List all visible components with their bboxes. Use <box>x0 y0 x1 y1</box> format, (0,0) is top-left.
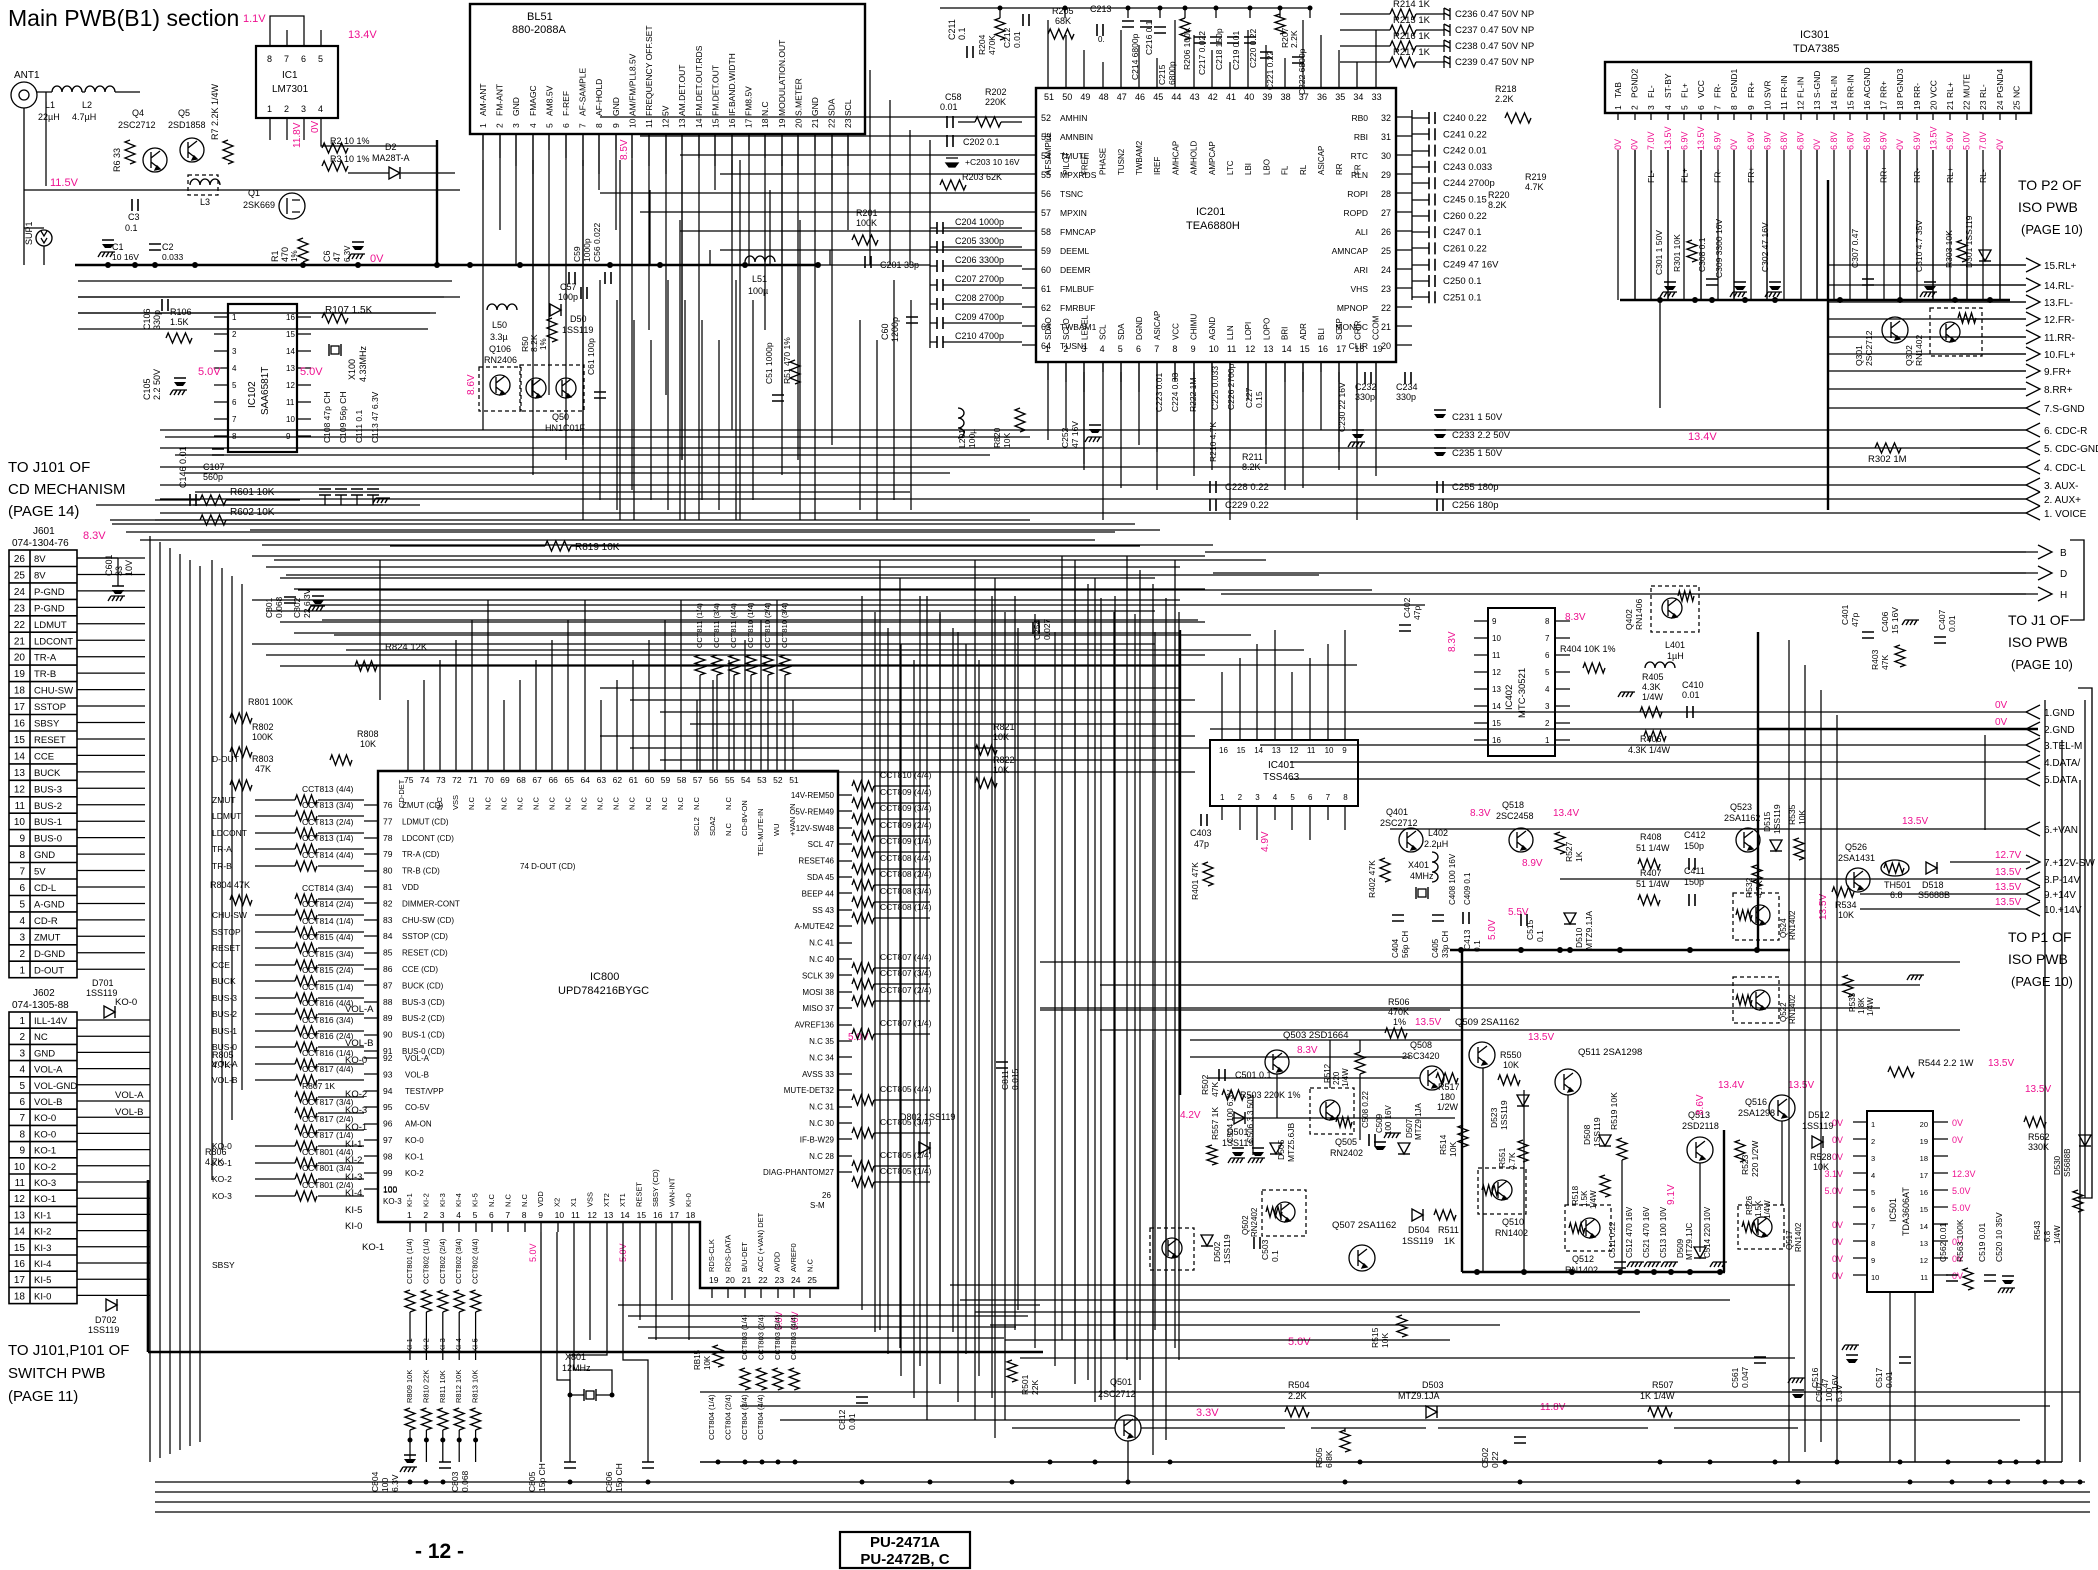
svg-text:93: 93 <box>383 1069 393 1079</box>
svg-text:DEEMR: DEEMR <box>1060 265 1091 275</box>
svg-text:CCT804 (4/4): CCT804 (4/4) <box>756 1394 765 1440</box>
svg-text:ROPD: ROPD <box>1343 208 1368 218</box>
svg-text:BLI: BLI <box>1317 328 1326 340</box>
svg-text:C235 1 50V: C235 1 50V <box>1452 448 1503 459</box>
wires X801 <box>570 1394 584 1396</box>
wire J602 row <box>77 1116 150 1118</box>
svg-text:8.2K: 8.2K <box>529 334 539 352</box>
wire to arrow 15.RL+ <box>1960 264 2026 266</box>
svg-text:11: 11 <box>286 398 295 407</box>
svg-text:3.3V: 3.3V <box>1196 1407 1219 1419</box>
svg-text:19: 19 <box>1373 344 1383 354</box>
svg-text:Q507 2SA1162: Q507 2SA1162 <box>1332 1220 1396 1231</box>
wire RL rows from IC301 to P2 arrows <box>1828 264 2026 266</box>
svg-text:11: 11 <box>15 1178 26 1189</box>
svg-text:14: 14 <box>1492 702 1501 711</box>
svg-text:21: 21 <box>14 636 26 647</box>
svg-text:5: 5 <box>1679 105 1689 110</box>
svg-text:D504: D504 <box>1408 1225 1430 1235</box>
svg-text:2SK669: 2SK669 <box>243 200 275 210</box>
connector arrow 9.+14V <box>2026 887 2040 901</box>
wire cap bank row <box>1412 231 1429 233</box>
svg-text:5: 5 <box>232 381 237 390</box>
svg-text:AVSS 33: AVSS 33 <box>802 1070 834 1079</box>
svg-text:13: 13 <box>677 118 687 128</box>
svg-text:330p: 330p <box>1355 392 1375 402</box>
resistor CCT817 for net x <box>295 1125 317 1135</box>
svg-text:CCT810 (2/4): CCT810 (2/4) <box>763 602 772 648</box>
svg-text:BEEP 44: BEEP 44 <box>802 889 835 898</box>
svg-text:KO-3: KO-3 <box>212 1191 232 1201</box>
svg-text:56: 56 <box>1041 189 1051 199</box>
svg-text:16: 16 <box>1862 100 1872 110</box>
svg-text:KO-1: KO-1 <box>362 1242 384 1253</box>
svg-text:C512 470 16V: C512 470 16V <box>1625 1206 1634 1258</box>
svg-text:N.C 35: N.C 35 <box>809 1037 834 1046</box>
resistor CCT815 for net RESET <box>295 943 317 953</box>
svg-text:48: 48 <box>1099 92 1109 102</box>
svg-text:R812 10K: R812 10K <box>454 1370 463 1403</box>
wire IC1 feedback loop <box>270 16 304 30</box>
svg-text:(PAGE 10): (PAGE 10) <box>2011 657 2073 672</box>
svg-text:SCL 47: SCL 47 <box>808 840 835 849</box>
svg-text:13.4V: 13.4V <box>348 29 377 41</box>
svg-text:15: 15 <box>14 735 26 746</box>
resistor R544 2.2 1W <box>1888 1067 1914 1077</box>
svg-text:R532: R532 <box>1744 877 1754 898</box>
connector arrow 13.FL- <box>2026 295 2040 309</box>
wire to arrow 5. CDC-GND <box>1960 447 2026 449</box>
svg-text:X401: X401 <box>1408 860 1429 870</box>
svg-text:21: 21 <box>1945 100 1955 110</box>
svg-text:R563 100K: R563 100K <box>1955 1219 1965 1262</box>
svg-text:22: 22 <box>1962 100 1972 110</box>
svg-text:0.1: 0.1 <box>1535 930 1545 942</box>
svg-text:41: 41 <box>1226 92 1236 102</box>
svg-text:12: 12 <box>286 381 295 390</box>
svg-text:17: 17 <box>14 702 26 713</box>
svg-text:C401: C401 <box>1840 604 1850 625</box>
svg-text:10K: 10K <box>1448 1142 1458 1157</box>
svg-text:RDS-CLK: RDS-CLK <box>707 1239 716 1272</box>
connector arrow 14.RL- <box>2026 278 2040 292</box>
svg-text:18: 18 <box>14 1291 26 1302</box>
svg-text:TSNC: TSNC <box>1060 189 1083 199</box>
svg-text:GND: GND <box>34 850 55 861</box>
svg-text:C521 470 16V: C521 470 16V <box>1642 1206 1651 1258</box>
svg-text:33p CH: 33p CH <box>1441 931 1450 958</box>
svg-text:D702: D702 <box>95 1315 117 1325</box>
svg-text:20: 20 <box>14 653 26 664</box>
svg-text:0.01: 0.01 <box>847 1413 857 1430</box>
svg-text:X1: X1 <box>569 1198 578 1207</box>
resistor CCT810 (4/4) <box>852 781 874 791</box>
svg-text:11: 11 <box>1307 746 1316 755</box>
wire IC501 bottom drops <box>1889 1292 1891 1462</box>
svg-text:13.5V: 13.5V <box>1995 867 2021 878</box>
svg-text:180: 180 <box>1440 1092 1455 1102</box>
wire IC102 bottom rail <box>193 504 383 506</box>
svg-text:21: 21 <box>1381 322 1391 332</box>
svg-text:R504: R504 <box>1288 1380 1310 1390</box>
svg-text:KI-3: KI-3 <box>34 1243 51 1254</box>
svg-text:C410: C410 <box>1682 680 1704 690</box>
svg-text:C403: C403 <box>1190 828 1212 838</box>
svg-text:AM-ON: AM-ON <box>405 1120 432 1129</box>
svg-text:13: 13 <box>286 364 295 373</box>
svg-text:2. AUX+: 2. AUX+ <box>2044 495 2081 506</box>
svg-text:LDCONT (CD): LDCONT (CD) <box>402 834 454 843</box>
svg-text:12: 12 <box>1920 1256 1928 1265</box>
svg-text:6.8V: 6.8V <box>1862 131 1872 150</box>
svg-text:R7 2.2K 1/4W: R7 2.2K 1/4W <box>210 83 220 140</box>
wire vertical bundle from BL51 <box>482 160 484 430</box>
svg-text:C228 0.22: C228 0.22 <box>1225 482 1269 493</box>
svg-text:58: 58 <box>677 775 687 785</box>
svg-text:R408: R408 <box>1640 832 1662 842</box>
svg-text:DIAG-PHANTOM27: DIAG-PHANTOM27 <box>763 1168 835 1177</box>
svg-text:1SS119: 1SS119 <box>1592 1117 1602 1147</box>
svg-text:60: 60 <box>645 775 655 785</box>
svg-text:24: 24 <box>1381 265 1391 275</box>
svg-text:36: 36 <box>1317 92 1327 102</box>
wire J602 row <box>77 1181 150 1183</box>
wires power cluster mesh 2 <box>1208 1077 1420 1079</box>
svg-text:MTZ9.1JA: MTZ9.1JA <box>1414 1102 1423 1140</box>
svg-text:10.FL+: 10.FL+ <box>2044 350 2076 361</box>
svg-text:CCT801 (2/4): CCT801 (2/4) <box>302 1180 354 1190</box>
svg-text:CCE: CCE <box>34 751 54 762</box>
svg-text:C516: C516 <box>1810 1367 1820 1388</box>
svg-text:5: 5 <box>544 123 554 128</box>
svg-text:0.15: 0.15 <box>1254 391 1264 408</box>
svg-text:X801: X801 <box>565 1352 586 1362</box>
svg-text:7: 7 <box>232 415 237 424</box>
heavy bus 13.5V mid right <box>1450 949 1790 952</box>
svg-text:33: 33 <box>1372 92 1382 102</box>
svg-text:6.+VAN: 6.+VAN <box>2044 825 2078 836</box>
svg-text:0.047: 0.047 <box>1740 1366 1750 1388</box>
svg-text:N.C: N.C <box>644 797 653 811</box>
svg-text:4.33MHz: 4.33MHz <box>358 345 368 382</box>
wire J602 row <box>77 1051 150 1053</box>
IC IC301 TDA7385 box <box>1605 62 2031 113</box>
svg-text:KI-0: KI-0 <box>345 1221 362 1232</box>
svg-text:KI-3: KI-3 <box>438 1193 447 1207</box>
svg-text:X2: X2 <box>553 1198 562 1207</box>
svg-text:MPXRDS: MPXRDS <box>1060 170 1097 180</box>
resistor CCT808 (1/4) <box>852 913 874 923</box>
svg-text:7.0V: 7.0V <box>1646 131 1656 150</box>
svg-text:R543: R543 <box>2033 1220 2042 1240</box>
wire J601 row <box>77 787 145 789</box>
svg-text:22: 22 <box>1381 303 1391 313</box>
wire R602 <box>155 519 200 521</box>
wire misc mid-right horizontals <box>1210 711 2026 713</box>
svg-text:Q402: Q402 <box>1624 609 1634 630</box>
capacitor C261 0.22 <box>1429 242 1435 254</box>
svg-text:10: 10 <box>1492 634 1501 643</box>
svg-text:C308 0.1: C308 0.1 <box>1697 237 1707 272</box>
wire J602 row <box>77 1068 150 1070</box>
wire VDD pin9 down <box>540 1232 542 1462</box>
svg-text:AMNBIN: AMNBIN <box>1060 132 1093 142</box>
svg-text:26: 26 <box>822 1191 831 1200</box>
svg-text:C59: C59 <box>572 246 582 262</box>
svg-text:5: 5 <box>19 1081 25 1092</box>
svg-text:MPNOP: MPNOP <box>1337 303 1369 313</box>
transistor Q508 circle <box>1420 1066 1444 1090</box>
svg-text:MTZ9.1JA: MTZ9.1JA <box>1584 910 1594 950</box>
svg-text:8.9V: 8.9V <box>1522 858 1543 869</box>
svg-text:51 1/4W: 51 1/4W <box>1636 843 1670 853</box>
svg-text:N.C: N.C <box>503 1194 512 1208</box>
svg-text:16: 16 <box>14 1259 26 1270</box>
svg-text:13.5V: 13.5V <box>1528 1032 1554 1043</box>
svg-text:N.C: N.C <box>596 797 605 811</box>
svg-text:L3: L3 <box>200 197 210 207</box>
svg-text:3: 3 <box>1871 1154 1875 1163</box>
svg-text:20: 20 <box>1928 100 1938 110</box>
svg-text:0.01: 0.01 <box>1012 31 1022 48</box>
resistor CCT813 for net LDMUT <box>295 811 317 821</box>
svg-text:5.0V: 5.0V <box>198 366 221 378</box>
connector arrow D <box>2038 566 2052 580</box>
svg-text:PGND3: PGND3 <box>1895 68 1905 98</box>
svg-text:Q512: Q512 <box>1572 1254 1594 1264</box>
svg-text:8: 8 <box>1871 1239 1875 1248</box>
svg-text:C250 0.1: C250 0.1 <box>1443 276 1482 287</box>
wire bottom long buses <box>155 1481 2085 1483</box>
svg-text:LLN: LLN <box>1226 325 1235 340</box>
digital transistor Q512 RN1402 <box>1565 1205 1611 1251</box>
svg-text:C234: C234 <box>1396 382 1418 392</box>
svg-text:C519 0.01: C519 0.01 <box>1977 1223 1987 1262</box>
svg-text:1/4W: 1/4W <box>1763 1200 1772 1219</box>
svg-text:1: 1 <box>1613 105 1623 110</box>
svg-text:31: 31 <box>1381 132 1391 142</box>
svg-text:R211: R211 <box>1242 452 1263 462</box>
wire rows bottom middle <box>700 1391 2080 1393</box>
wire J601 row <box>77 771 145 773</box>
wire band horizontals y430..520 left <box>165 436 1030 438</box>
svg-text:4.3K 1/4W: 4.3K 1/4W <box>1628 745 1671 755</box>
digital transistor Q522 RN1402 <box>1733 977 1779 1023</box>
svg-text:A-GND: A-GND <box>34 899 65 910</box>
svg-text:3: 3 <box>19 932 25 943</box>
svg-text:19: 19 <box>14 669 26 680</box>
svg-text:2SC2712: 2SC2712 <box>1864 330 1874 366</box>
svg-text:(PAGE 10): (PAGE 10) <box>2021 222 2083 237</box>
svg-text:VCC: VCC <box>1696 80 1706 98</box>
svg-text:R811 10K: R811 10K <box>438 1370 447 1403</box>
svg-text:5.0V: 5.0V <box>1952 1203 1971 1213</box>
svg-text:83: 83 <box>383 915 393 925</box>
svg-text:AVDD: AVDD <box>773 1251 782 1272</box>
svg-text:FM.DET.OUT: FM.DET.OUT <box>710 65 720 116</box>
wire J601 row <box>77 919 145 921</box>
svg-text:Q502: Q502 <box>1241 1215 1250 1235</box>
svg-text:10: 10 <box>1325 746 1334 755</box>
svg-text:4: 4 <box>528 123 538 128</box>
wire VSS down <box>589 1232 591 1340</box>
svg-text:59: 59 <box>1041 246 1051 256</box>
svg-text:5V: 5V <box>661 105 671 116</box>
wire J601 row <box>77 574 145 576</box>
svg-text:Q518: Q518 <box>1502 800 1524 810</box>
svg-text:7: 7 <box>19 1113 25 1124</box>
svg-text:N.C: N.C <box>724 823 733 837</box>
svg-text:5.0V: 5.0V <box>1824 1186 1843 1196</box>
svg-text:21: 21 <box>810 118 820 128</box>
svg-text:15: 15 <box>1492 719 1501 728</box>
IC IC401 TSS463 box <box>1210 740 1358 806</box>
svg-text:TMUTE: TMUTE <box>1060 151 1090 161</box>
svg-text:SCLK 39: SCLK 39 <box>802 971 835 980</box>
wire heavy vertical right power <box>1723 1130 1725 1272</box>
svg-text:1/4W: 1/4W <box>1589 1190 1598 1209</box>
wire J601 row <box>77 903 145 905</box>
svg-text:18: 18 <box>1895 100 1905 110</box>
wire rows under IC800 <box>618 1304 1040 1306</box>
capacitor C204 <box>937 222 943 234</box>
svg-text:LBO: LBO <box>1262 159 1271 175</box>
svg-text:R534: R534 <box>1835 900 1857 910</box>
wire to arrow 1. VOICE <box>1960 512 2026 514</box>
svg-text:CCT814 (4/4): CCT814 (4/4) <box>302 850 354 860</box>
ground bus 0V heavy <box>75 264 818 267</box>
svg-text:FREQUENCY OFF.SET: FREQUENCY OFF.SET <box>644 25 654 116</box>
svg-text:N.C 40: N.C 40 <box>809 955 834 964</box>
svg-text:15 16V: 15 16V <box>1890 607 1900 634</box>
svg-text:61: 61 <box>1041 284 1051 294</box>
svg-text:12.FR-: 12.FR- <box>2044 315 2075 326</box>
svg-text:1.1V: 1.1V <box>243 13 266 25</box>
svg-text:10: 10 <box>14 1162 26 1173</box>
svg-text:RR-: RR- <box>1912 83 1922 98</box>
svg-text:1µH: 1µH <box>1667 651 1684 661</box>
svg-text:FM8.5V: FM8.5V <box>744 86 754 116</box>
svg-text:18: 18 <box>686 1210 696 1220</box>
svg-text:18: 18 <box>760 118 770 128</box>
svg-text:KI-2: KI-2 <box>421 1193 430 1207</box>
svg-text:TAB: TAB <box>1613 82 1623 98</box>
wire BL51 pin verticals long <box>482 134 484 190</box>
svg-text:C231 1 50V: C231 1 50V <box>1452 412 1503 423</box>
svg-text:D802 1SS119: D802 1SS119 <box>900 1112 955 1122</box>
resistor CCT809 (3/4) <box>852 814 874 824</box>
svg-text:WU: WU <box>772 824 781 837</box>
svg-text:N.C: N.C <box>760 101 770 116</box>
svg-text:6.8V: 6.8V <box>1829 131 1839 150</box>
svg-text:13.5V: 13.5V <box>1928 126 1938 150</box>
svg-text:47K: 47K <box>1880 655 1890 670</box>
wire J601 row <box>77 952 145 954</box>
svg-text:AVREF136: AVREF136 <box>795 1021 835 1030</box>
svg-text:C251 0.1: C251 0.1 <box>1443 292 1482 303</box>
svg-text:CCT802 (4/4): CCT802 (4/4) <box>471 1238 480 1284</box>
svg-text:RN1402: RN1402 <box>1495 1228 1528 1238</box>
heavy bus bottom power <box>1462 1271 1725 1274</box>
svg-text:13: 13 <box>1812 100 1822 110</box>
svg-text:21: 21 <box>742 1275 752 1285</box>
svg-text:R201: R201 <box>856 208 878 218</box>
svg-text:74: 74 <box>420 775 430 785</box>
svg-text:D701: D701 <box>92 978 114 988</box>
svg-text:FL: FL <box>1281 165 1290 175</box>
wire bundle vertical right of IC301 <box>1827 180 1829 510</box>
connector arrow 6. CDC-R <box>2026 423 2040 437</box>
svg-text:87: 87 <box>383 980 393 990</box>
svg-text:KO-0: KO-0 <box>34 1129 56 1140</box>
connector arrow 10.+14V <box>2026 902 2040 916</box>
wire mid horizontal bundle from IC800 right side <box>250 529 1160 531</box>
svg-text:2.2µH: 2.2µH <box>1424 839 1448 849</box>
svg-text:UPD784216BYGC: UPD784216BYGC <box>558 985 649 997</box>
svg-text:62: 62 <box>1041 303 1051 313</box>
svg-text:RBI: RBI <box>1354 132 1368 142</box>
svg-text:1: 1 <box>19 965 25 976</box>
svg-text:TH501: TH501 <box>1884 880 1911 890</box>
svg-text:KI-0: KI-0 <box>684 1193 693 1207</box>
junction dots on 0V bus <box>105 262 111 268</box>
svg-text:CHU-SW (CD): CHU-SW (CD) <box>402 916 454 925</box>
svg-text:5.0V: 5.0V <box>300 366 323 378</box>
svg-text:6.9V: 6.9V <box>1679 131 1689 150</box>
svg-text:C405: C405 <box>1431 938 1440 958</box>
svg-text:2: 2 <box>1630 105 1640 110</box>
svg-text:ACGND: ACGND <box>1862 67 1872 98</box>
svg-text:C514 220 10V: C514 220 10V <box>1703 1206 1712 1258</box>
svg-text:KI-1: KI-1 <box>405 1193 414 1207</box>
svg-text:10K: 10K <box>1503 1060 1519 1070</box>
svg-text:6: 6 <box>1545 651 1550 660</box>
svg-text:20: 20 <box>793 118 803 128</box>
svg-text:CCT814 (3/4): CCT814 (3/4) <box>302 883 354 893</box>
svg-text:5: 5 <box>19 899 25 910</box>
svg-text:4.3K: 4.3K <box>1642 682 1661 692</box>
svg-text:CRIR: CRIR <box>1353 320 1362 340</box>
svg-text:8: 8 <box>594 123 604 128</box>
svg-text:N.C 31: N.C 31 <box>809 1103 834 1112</box>
wire J601 row <box>77 656 145 658</box>
svg-text:9: 9 <box>1492 617 1497 626</box>
svg-text:11: 11 <box>15 801 26 812</box>
svg-text:30: 30 <box>1381 151 1391 161</box>
svg-text:63: 63 <box>597 775 607 785</box>
svg-text:330p: 330p <box>1396 392 1416 402</box>
resistor R819 10K <box>545 541 571 551</box>
capacitor C207 <box>937 279 943 291</box>
svg-text:BUS-2 (CD): BUS-2 (CD) <box>402 1014 445 1023</box>
svg-text:13.4V: 13.4V <box>1718 1080 1744 1091</box>
svg-text:AMNCAP: AMNCAP <box>1332 246 1369 256</box>
svg-text:CCT804 (1/4): CCT804 (1/4) <box>707 1394 716 1440</box>
svg-text:Q106: Q106 <box>489 344 511 354</box>
svg-text:CCT817 (3/4): CCT817 (3/4) <box>302 1097 354 1107</box>
resistor CCT801 for net KO-2 <box>295 1174 317 1184</box>
svg-text:51: 51 <box>1044 92 1054 102</box>
svg-text:C404: C404 <box>1391 938 1400 958</box>
svg-text:AF-HOLD: AF-HOLD <box>594 79 604 116</box>
svg-text:NC: NC <box>2011 86 2021 98</box>
wire top area verticals from BL51 to IC201 <box>869 70 871 265</box>
resistor R807 for net x <box>295 1092 317 1102</box>
svg-text:46: 46 <box>1135 92 1145 102</box>
svg-text:R511: R511 <box>1438 1225 1459 1235</box>
svg-text:AF-SAMPLE: AF-SAMPLE <box>578 67 588 116</box>
svg-text:CCT817 (2/4): CCT817 (2/4) <box>302 1114 354 1124</box>
